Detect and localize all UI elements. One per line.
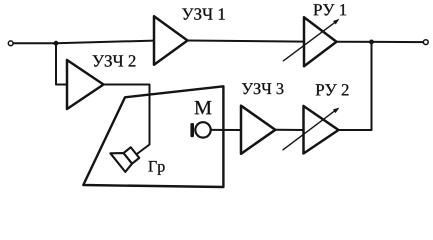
label RU 1 xyxy=(314,4,347,15)
wire microphone to UZCH3 xyxy=(211,129,241,131)
label UZCH 1 xyxy=(182,8,225,19)
adjustable amplifier RU2 xyxy=(304,106,339,154)
wire junction2 down xyxy=(371,42,373,130)
microphone M diaphragm bar xyxy=(190,123,194,137)
output terminal xyxy=(423,40,428,45)
RU1 arrowhead xyxy=(333,19,340,25)
RU1 adjustment arrow xyxy=(283,22,335,60)
adjustable amplifier RU1 xyxy=(304,17,337,66)
input terminal xyxy=(8,41,13,46)
wire junction down to UZCH2 xyxy=(56,43,67,84)
wire UZCH2 output to speaker xyxy=(104,85,150,154)
label RU 2 xyxy=(316,84,349,96)
wire junction to UZCH1 xyxy=(56,41,154,44)
wire UZCH3 to RU2 xyxy=(275,129,303,131)
loudspeaker Gr xyxy=(110,141,140,172)
amplifier UZCH1 xyxy=(154,16,188,65)
amplifier UZCH3 xyxy=(241,106,275,154)
RU2 arrowhead xyxy=(333,108,340,114)
wire RU1 to output terminal xyxy=(337,41,424,43)
label M (microphone) xyxy=(195,101,212,114)
junction node 1 xyxy=(54,41,59,46)
RU2 adjustment arrow xyxy=(283,111,335,150)
amplifier UZCH2 xyxy=(67,60,104,109)
room enclosure (quadrilateral) xyxy=(83,86,223,187)
label Gr (loudspeaker) xyxy=(149,161,165,175)
label UZCH 2 xyxy=(93,55,136,66)
wire down-rail to RU2 tip xyxy=(339,129,372,131)
wire UZCH1 to RU1 xyxy=(188,41,305,42)
label UZCH 3 xyxy=(242,83,283,94)
wire input to junction xyxy=(13,42,56,44)
junction node 2 xyxy=(369,40,374,45)
microphone M circle xyxy=(195,122,210,137)
